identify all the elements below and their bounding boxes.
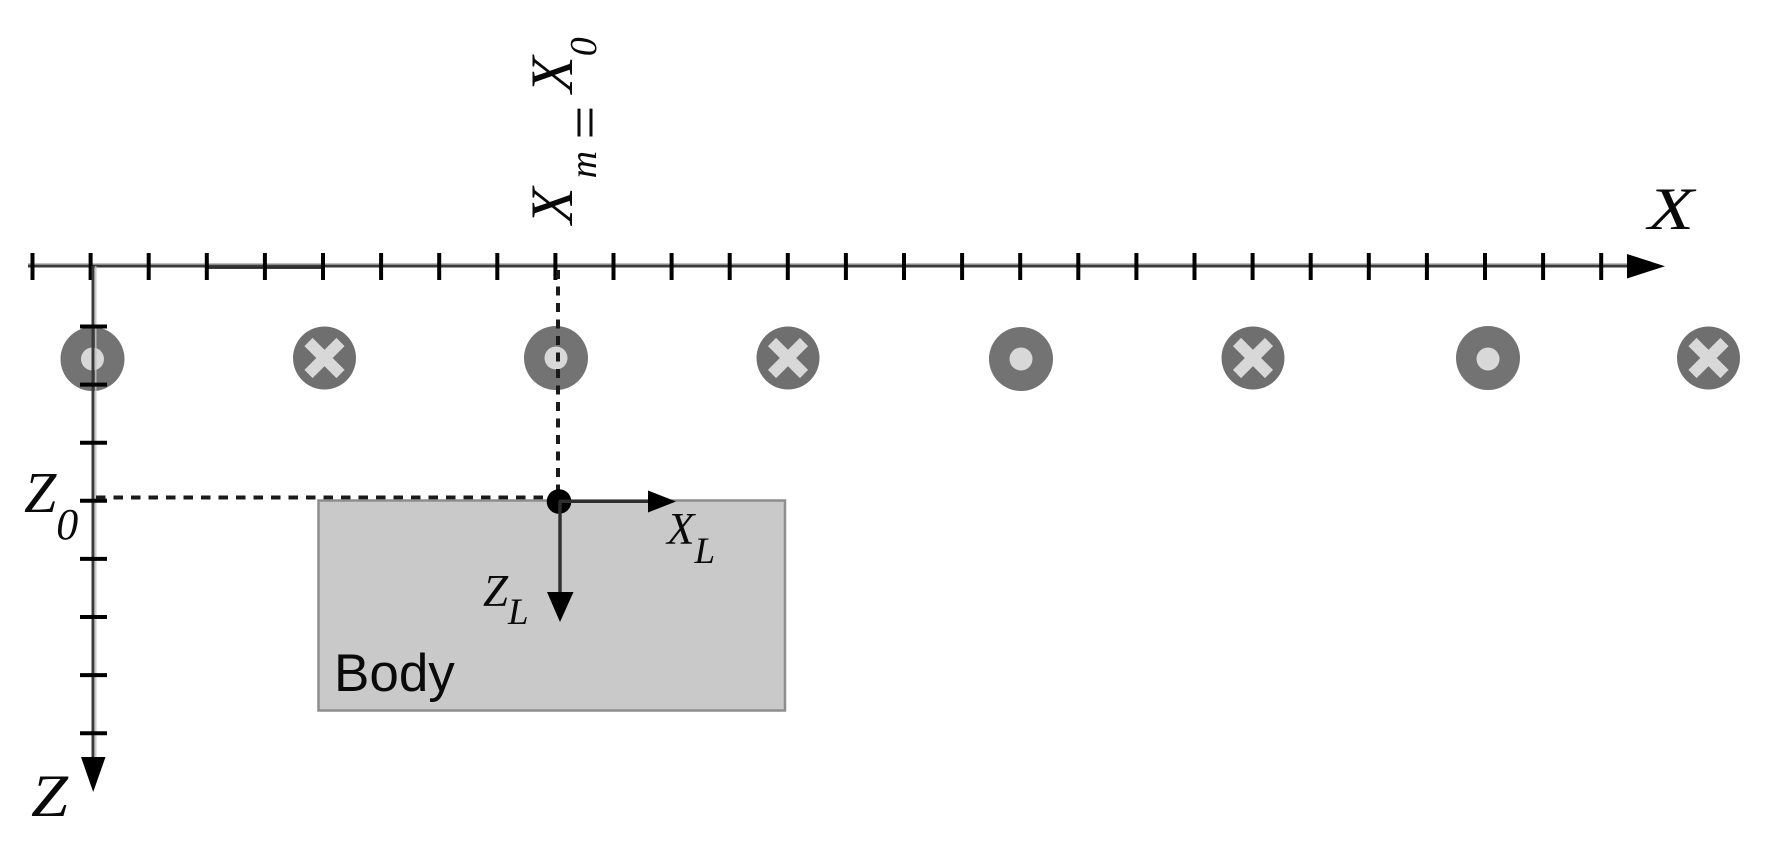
conductor circle 3 (current out of page) xyxy=(524,326,588,390)
local Z_L axis arrow xyxy=(547,501,574,622)
X axis doubled segment xyxy=(206,267,323,269)
svg-text:Z: Z xyxy=(31,763,69,829)
X axis tick marks xyxy=(33,253,1602,280)
Z axis arrowhead xyxy=(81,757,106,792)
local X_L axis arrow xyxy=(559,491,676,513)
X axis arrowhead xyxy=(1627,254,1665,279)
conductor circle 7 (current out of page) xyxy=(1456,326,1520,390)
conductor circle 6 (current into page) xyxy=(1222,327,1285,390)
conductor circle 5 (current out of page) xyxy=(989,327,1053,391)
dotted vertical line at Xm xyxy=(556,270,560,493)
Z axis halo line xyxy=(95,266,97,772)
X axis line xyxy=(28,265,1634,268)
svg-text:Body: Body xyxy=(334,644,455,703)
X axis halo line xyxy=(28,263,1634,265)
conductor circle 2 (current into page) xyxy=(293,327,356,390)
Z axis tick marks xyxy=(80,327,107,734)
conductor circle 8 (current into page) xyxy=(1677,327,1740,390)
body rectangle xyxy=(319,501,786,711)
local origin dot xyxy=(547,489,572,514)
Z axis line xyxy=(92,266,95,772)
dotted horizontal line at Z0 xyxy=(96,496,552,500)
svg-text:X: X xyxy=(1645,176,1696,242)
conductor circle 4 (current into page) xyxy=(757,327,820,390)
conductor circle 1 (current out of page) xyxy=(61,327,125,391)
